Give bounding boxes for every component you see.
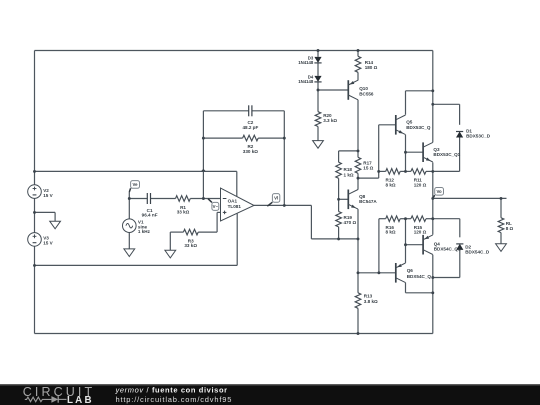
svg-text:R20: R20 xyxy=(323,113,332,118)
svg-text:BDX54C_D: BDX54C_D xyxy=(465,250,490,255)
svg-text:1 kΩ: 1 kΩ xyxy=(344,172,354,177)
svg-text:Vo: Vo xyxy=(437,189,443,194)
svg-text:Ve: Ve xyxy=(133,182,139,187)
svg-text:33 kΩ: 33 kΩ xyxy=(184,243,197,248)
svg-text:330 kΩ: 330 kΩ xyxy=(243,149,258,154)
svg-text:1N4148: 1N4148 xyxy=(298,79,314,84)
svg-text:TL081: TL081 xyxy=(228,204,242,209)
svg-text:3.3 kΩ: 3.3 kΩ xyxy=(323,118,337,123)
svg-text:Q5: Q5 xyxy=(406,120,413,125)
svg-text:1N4148: 1N4148 xyxy=(298,60,314,65)
svg-text:LAB: LAB xyxy=(67,395,94,405)
svg-text:15 Ω: 15 Ω xyxy=(363,166,373,171)
svg-text:BDX54C_Q: BDX54C_Q xyxy=(407,274,432,279)
svg-text:180 Ω: 180 Ω xyxy=(365,65,378,70)
svg-text:Q6: Q6 xyxy=(407,268,414,273)
svg-text:BDX54C_Q1: BDX54C_Q1 xyxy=(434,246,461,251)
svg-text:96.4 nF: 96.4 nF xyxy=(142,212,158,217)
svg-text:Q8: Q8 xyxy=(359,194,366,199)
svg-text:8 kΩ: 8 kΩ xyxy=(386,182,396,187)
svg-text:15 V: 15 V xyxy=(43,241,53,246)
svg-text:48.2 pF: 48.2 pF xyxy=(242,125,258,130)
svg-text:V−: V− xyxy=(213,204,219,209)
svg-text:8 kΩ: 8 kΩ xyxy=(386,230,396,235)
svg-text:Q10: Q10 xyxy=(359,86,368,91)
svg-text:8 Ω: 8 Ω xyxy=(506,226,514,231)
svg-text:R13: R13 xyxy=(364,294,373,299)
svg-text:BDX53C_Q: BDX53C_Q xyxy=(406,125,431,130)
svg-text:3.8 kΩ: 3.8 kΩ xyxy=(364,299,378,304)
svg-text:Vl: Vl xyxy=(274,195,278,200)
svg-text:15 V: 15 V xyxy=(43,193,53,198)
svg-text:BC556: BC556 xyxy=(359,91,374,96)
svg-text:D1: D1 xyxy=(466,128,472,133)
svg-text:BC547A: BC547A xyxy=(359,199,377,204)
svg-text:OA1: OA1 xyxy=(228,199,238,204)
svg-text:yermov / fuente con divisor: yermov / fuente con divisor xyxy=(115,386,228,395)
svg-text:BDX53C_D: BDX53C_D xyxy=(466,134,491,139)
svg-text:http://circuitlab.com/cdvhf95: http://circuitlab.com/cdvhf95 xyxy=(116,395,233,404)
svg-text:120 Ω: 120 Ω xyxy=(414,182,427,187)
svg-text:120 Ω: 120 Ω xyxy=(414,230,427,235)
svg-text:33 kΩ: 33 kΩ xyxy=(177,209,190,214)
svg-text:470 Ω: 470 Ω xyxy=(344,220,357,225)
svg-text:BDX53C_Q1: BDX53C_Q1 xyxy=(433,152,460,157)
svg-text:1 kHz: 1 kHz xyxy=(138,229,151,234)
